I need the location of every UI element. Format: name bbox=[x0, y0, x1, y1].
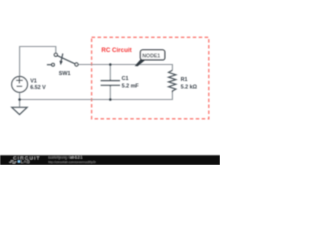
SW1 pivot terminal bbox=[54, 53, 57, 56]
svg-text:NODE1: NODE1 bbox=[142, 54, 160, 60]
wire C1 bottom lead bbox=[109, 87, 111, 100]
wire SW1 output to R1 top (top rail) bbox=[78, 65, 172, 71]
V1 body circle bbox=[12, 77, 28, 93]
svg-text:LAB: LAB bbox=[21, 159, 30, 164]
svg-text:http://circuitlab.com/ceswmuc8: http://circuitlab.com/ceswmuc86p3r bbox=[48, 160, 96, 164]
watermark logo squarewave bbox=[9, 161, 16, 164]
ground bbox=[12, 107, 28, 114]
SW1 actuator arrow shaft bbox=[61, 54, 63, 62]
voltage source V1 bbox=[12, 77, 28, 93]
watermark bar bbox=[0, 155, 220, 165]
svg-text:RC Circuit: RC Circuit bbox=[101, 47, 131, 54]
switch SW1 bbox=[47, 53, 78, 66]
SW1 unused left terminal bbox=[52, 63, 55, 66]
svg-text:V1: V1 bbox=[30, 78, 37, 84]
C1 top plate stub bbox=[109, 79, 111, 80]
resistor R1 bbox=[169, 70, 176, 92]
SW1 actuator arrow head bbox=[60, 61, 63, 65]
svg-text:R1: R1 bbox=[181, 77, 188, 83]
node NODE1 flag tail bbox=[135, 60, 145, 67]
C1 top plate bbox=[101, 80, 120, 82]
capacitor C1 bbox=[101, 79, 120, 86]
svg-text:5.2 mF: 5.2 mF bbox=[122, 83, 140, 89]
svg-text:SW1: SW1 bbox=[59, 71, 71, 77]
V1 plus sign horizontal bbox=[16, 79, 23, 81]
svg-text:scarlettjeong / lab 6.2.1: scarlettjeong / lab 6.2.1 bbox=[48, 156, 82, 160]
wire ground stem bbox=[19, 100, 21, 108]
svg-text:C1: C1 bbox=[122, 76, 129, 82]
svg-text:6.52 V: 6.52 V bbox=[30, 85, 46, 91]
SW1 right terminal bbox=[75, 63, 78, 66]
wire V1 plus terminal to SW1 pivot bbox=[20, 47, 56, 77]
node NODE1 flag box bbox=[140, 50, 164, 60]
V1 minus sign bbox=[17, 85, 23, 87]
wire bottom rail (V1 minus to R1 bottom) bbox=[20, 92, 173, 99]
junction at V1 minus / ground bbox=[18, 98, 21, 101]
C1 bottom plate stub bbox=[109, 85, 111, 86]
SW1 unused left terminal stub bbox=[47, 64, 52, 66]
annotation box "RC Circuit" (red dashed) bbox=[92, 37, 209, 119]
wire C1 top lead bbox=[109, 65, 111, 80]
V1 plus sign vertical bbox=[18, 77, 20, 83]
watermark logo blue square bbox=[18, 160, 20, 162]
SW1 lever bbox=[57, 56, 75, 64]
junction NODE1 (top of C1) bbox=[109, 63, 112, 66]
junction at bottom of C1 bbox=[109, 98, 112, 101]
svg-text:5.2 kΩ: 5.2 kΩ bbox=[181, 84, 198, 90]
C1 bottom plate bbox=[101, 84, 120, 86]
